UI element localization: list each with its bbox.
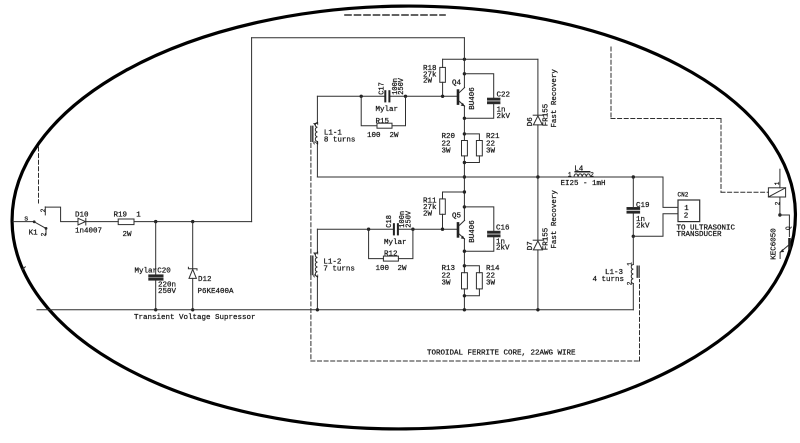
- resistor R11: [423, 192, 445, 229]
- resistor R13: [442, 265, 468, 289]
- toroid core dashed link: [311, 144, 640, 362]
- node C20 tap: [154, 220, 157, 223]
- switch pin 2 lower: [40, 232, 47, 236]
- node R11 top: [463, 190, 466, 193]
- svg-text:2: 2: [627, 281, 634, 285]
- capacitor C22: [464, 74, 510, 121]
- connector CN2: [633, 177, 735, 239]
- svg-text:2W: 2W: [390, 132, 400, 140]
- svg-text:C16: C16: [496, 224, 510, 232]
- resistor R14: [464, 265, 500, 296]
- svg-text:1: 1: [313, 122, 320, 126]
- svg-text:250V: 250V: [405, 210, 413, 228]
- lower tank wire: [317, 228, 457, 230]
- svg-text:2: 2: [40, 232, 47, 236]
- svg-text:BU406: BU406: [469, 220, 477, 243]
- node R11 base: [441, 228, 444, 231]
- svg-text:4 turns: 4 turns: [593, 276, 625, 284]
- L1-1 pin 1: [313, 122, 320, 126]
- emitter column: [463, 106, 465, 141]
- svg-text:250V: 250V: [158, 288, 177, 296]
- svg-text:2W: 2W: [123, 231, 133, 239]
- node C18 right: [411, 228, 414, 231]
- node C17 right: [404, 95, 407, 98]
- capacitor C20: [135, 222, 177, 310]
- svg-text:8 turns: 8 turns: [324, 136, 356, 144]
- node C16 top: [463, 205, 466, 208]
- svg-text:1n4007: 1n4007: [75, 227, 102, 235]
- svg-text:R21: R21: [486, 133, 500, 141]
- svg-text:2W: 2W: [398, 265, 408, 273]
- svg-text:C19: C19: [636, 202, 650, 210]
- svg-text:K1: K1: [29, 230, 39, 238]
- svg-text:R19: R19: [114, 211, 128, 219]
- svg-text:EI25 - 1mH: EI25 - 1mH: [561, 180, 606, 188]
- svg-text:R15: R15: [376, 118, 390, 126]
- svg-text:1: 1: [313, 251, 320, 255]
- svg-text:2: 2: [40, 208, 47, 212]
- svg-text:R20: R20: [442, 133, 456, 141]
- svg-text:TOROIDAL FERRITE CORE, 22AWG W: TOROIDAL FERRITE CORE, 22AWG WIRE: [427, 350, 576, 358]
- svg-text:C17: C17: [378, 82, 386, 95]
- node top rail junction: [463, 58, 466, 61]
- inductor L1-3: [593, 236, 634, 309]
- svg-text:2kV: 2kV: [496, 245, 510, 253]
- top dashed artifact: [345, 14, 445, 16]
- L1-2 core: [311, 256, 313, 274]
- mid rail: [317, 176, 663, 178]
- capacitor C16: [464, 207, 510, 253]
- wire main dc: [134, 221, 252, 223]
- L1-3 pin 2: [627, 281, 634, 285]
- resistor R12: [369, 229, 413, 273]
- svg-text:3W: 3W: [442, 280, 452, 288]
- column to bottom rail: [463, 289, 465, 310]
- node mid rail center: [463, 175, 466, 178]
- diode D10: [75, 211, 102, 235]
- svg-text:FR155: FR155: [543, 227, 551, 250]
- svg-text:3W: 3W: [486, 280, 496, 288]
- resistor R19: [114, 211, 142, 239]
- diode D6: [527, 59, 559, 177]
- resistor R20: [442, 133, 468, 156]
- column to mid rail: [463, 156, 465, 221]
- resistor R18: [423, 59, 445, 96]
- capacitor C19: [627, 177, 650, 236]
- relay pin 1: [774, 181, 781, 185]
- upper tank wire: [317, 95, 457, 97]
- svg-text:2W: 2W: [423, 78, 433, 86]
- transistor Q4: [452, 79, 477, 109]
- node R18 base: [441, 95, 444, 98]
- node L1-2 gnd: [316, 308, 319, 311]
- svg-text:100: 100: [367, 132, 381, 140]
- node C20 gnd: [154, 308, 157, 311]
- node R20 top: [463, 132, 466, 135]
- svg-text:3W: 3W: [486, 147, 496, 155]
- inductor L1-1: [315, 96, 355, 177]
- svg-text:1: 1: [568, 171, 572, 178]
- svg-text:2: 2: [684, 212, 689, 220]
- node C16 bottom: [463, 250, 466, 253]
- svg-text:KEC6050: KEC6050: [771, 228, 779, 260]
- L1-3 core: [637, 266, 639, 277]
- svg-text:CN2: CN2: [678, 191, 689, 198]
- svg-text:2W: 2W: [423, 211, 433, 219]
- svg-text:P6KE400A: P6KE400A: [198, 288, 235, 296]
- tick artifact on ellipse: [22, 267, 26, 270]
- svg-text:C18: C18: [386, 215, 394, 228]
- resistor R21: [464, 133, 500, 163]
- svg-text:D6: D6: [527, 117, 535, 127]
- TVS diode D12: [188, 222, 234, 310]
- label transient: [134, 314, 256, 322]
- svg-text:Mylar: Mylar: [384, 239, 407, 247]
- wire left feed: [13, 221, 34, 223]
- svg-text:C22: C22: [497, 91, 511, 99]
- svg-text:7 turns: 7 turns: [323, 265, 355, 273]
- node C22 top: [463, 72, 466, 75]
- node C22 bottom: [463, 117, 466, 120]
- svg-text:TRANSDUCER: TRANSDUCER: [677, 231, 723, 239]
- resistor R15: [361, 96, 405, 140]
- svg-text:100: 100: [376, 265, 390, 273]
- node C18 left: [367, 228, 370, 231]
- svg-text:250V: 250V: [398, 77, 406, 95]
- node R14 bottom: [463, 294, 466, 297]
- svg-text:Q4: Q4: [452, 79, 462, 87]
- wire from switch: [45, 207, 78, 222]
- svg-text:3W: 3W: [442, 147, 452, 155]
- svg-text:Q: Q: [785, 226, 792, 230]
- inductor L4: [561, 166, 606, 188]
- svg-text:1: 1: [136, 211, 141, 219]
- node mid C19: [632, 175, 635, 178]
- svg-text:R12: R12: [384, 250, 398, 258]
- svg-text:D12: D12: [198, 276, 212, 284]
- svg-text:Transient Voltage Supressor: Transient Voltage Supressor: [134, 314, 256, 322]
- svg-text:2: 2: [313, 141, 320, 145]
- wire relay to Q: [778, 197, 789, 237]
- L1-1 pin 2: [313, 141, 320, 145]
- node R13 top: [463, 264, 466, 267]
- svg-text:R14: R14: [486, 265, 500, 273]
- switch pin 2 upper: [40, 208, 47, 212]
- node D12 tap: [191, 220, 194, 223]
- L1-2 pin 2: [313, 274, 320, 278]
- svg-text:2kV: 2kV: [636, 222, 650, 230]
- wire R11 top: [443, 191, 465, 193]
- transistor Q5: [452, 213, 477, 243]
- svg-text:D10: D10: [75, 211, 89, 219]
- wire R18 to D6 top: [443, 58, 538, 60]
- transistor Q KEC6050: [771, 226, 793, 260]
- svg-text:1: 1: [627, 262, 634, 266]
- node mid D6: [536, 175, 539, 178]
- L1-3 pin 1: [627, 262, 634, 266]
- label toroidal core: [427, 350, 576, 358]
- svg-text:2: 2: [313, 274, 320, 278]
- svg-text:2kV: 2kV: [497, 113, 511, 121]
- capacitor C18: [384, 210, 413, 247]
- svg-text:Fast Recovery: Fast Recovery: [551, 69, 559, 128]
- emitter column lower: [463, 239, 465, 273]
- inductor L1-2: [315, 229, 355, 310]
- wire: [86, 221, 118, 223]
- capacitor C17: [376, 77, 407, 114]
- svg-text:Mylar: Mylar: [135, 267, 158, 275]
- L1-2 pin 1: [313, 251, 320, 255]
- svg-text:D7: D7: [527, 241, 535, 250]
- svg-text:2: 2: [590, 171, 594, 178]
- svg-text:L4: L4: [574, 166, 584, 174]
- svg-text:Q5: Q5: [452, 213, 462, 221]
- node C19 bottom: [632, 235, 635, 238]
- top rail: [252, 37, 465, 39]
- vertical feed to top rail: [251, 38, 253, 222]
- node D7 gnd: [536, 308, 539, 311]
- node C17 left: [360, 95, 363, 98]
- svg-text:BU406: BU406: [469, 87, 477, 110]
- svg-text:Mylar: Mylar: [376, 106, 399, 114]
- svg-text:Fast Recovery: Fast Recovery: [551, 190, 559, 249]
- node R21 bottom: [463, 161, 466, 164]
- switch K1: [24, 207, 47, 238]
- node D12 gnd: [191, 308, 194, 311]
- diode D7: [527, 177, 559, 310]
- svg-text:s: s: [24, 215, 29, 223]
- dashed link top right: [611, 47, 768, 192]
- relay pin 2: [774, 201, 781, 205]
- svg-text:FR155: FR155: [543, 103, 551, 126]
- svg-text:C20: C20: [157, 267, 171, 275]
- dashed lead to switch: [38, 147, 40, 203]
- bottom rail: [37, 309, 633, 311]
- L1-1 core: [311, 126, 313, 141]
- relay contact box: [768, 169, 785, 197]
- svg-text:1: 1: [774, 181, 781, 185]
- node center gnd: [463, 308, 466, 311]
- svg-text:R13: R13: [442, 265, 456, 273]
- center column upper: [463, 38, 465, 88]
